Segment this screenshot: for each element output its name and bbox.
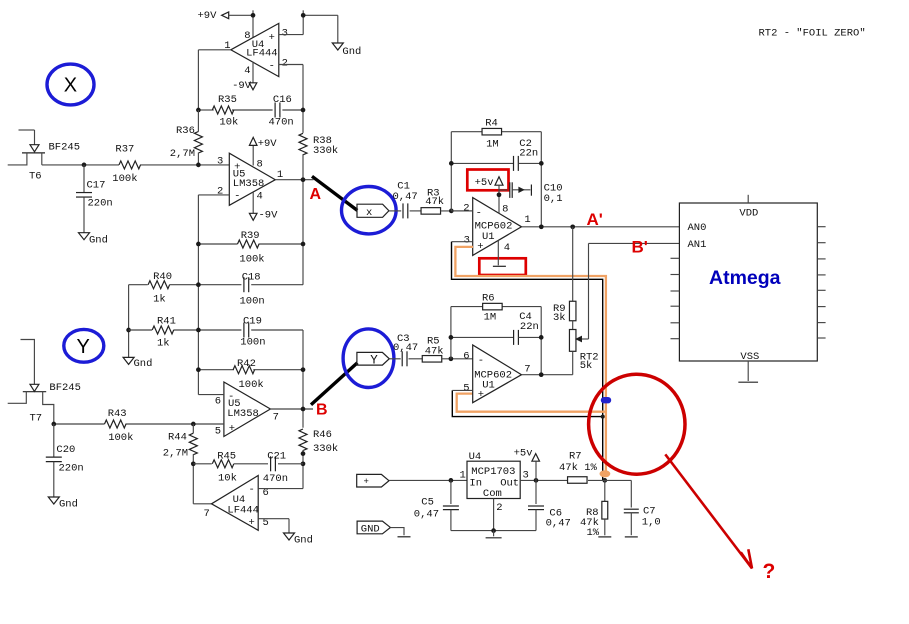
svg-text:R7: R7 (569, 451, 582, 463)
svg-text:Y: Y (77, 336, 90, 358)
wire + tag to regulator (389, 479, 467, 481)
svg-text:-: - (476, 208, 482, 220)
svg-text:7: 7 (273, 412, 279, 424)
node dot R42 left (196, 367, 201, 372)
node dot R39 right (301, 242, 306, 247)
svg-text:MCP1703: MCP1703 (471, 466, 515, 478)
svg-text:4: 4 (244, 65, 250, 77)
svg-text:A: A (310, 186, 322, 203)
op-amp U4 LF444 section B (bottom, output left) (204, 476, 269, 531)
ground bar VSS (738, 381, 758, 383)
pointer thick line A to X tag (312, 176, 357, 210)
svg-text:22n: 22n (519, 148, 538, 160)
svg-text:-9V: -9V (259, 210, 279, 222)
node dot U5B output (301, 407, 306, 412)
svg-text:220n: 220n (59, 463, 84, 475)
pin AN1 (688, 239, 707, 251)
annotation blue dash marker (601, 397, 611, 403)
resistor R45 10k (212, 451, 237, 485)
svg-text:GND: GND (361, 524, 380, 536)
svg-text:R35: R35 (218, 94, 237, 106)
wire pin4 to gnd bar (497, 240, 499, 265)
capacitor C21 470n (263, 451, 288, 486)
resistor R41 1k (152, 315, 176, 349)
op-amp U1 MCP602 section B (Y) (463, 345, 530, 403)
svg-text:100k: 100k (239, 379, 264, 391)
wire U5A output pin1 (275, 179, 313, 181)
svg-text:2,7M: 2,7M (170, 148, 195, 160)
svg-text:C16: C16 (273, 94, 292, 106)
power -9V arrow (U5A pin4) (249, 192, 278, 221)
node dot Com rail (491, 528, 496, 533)
capacitor C5 0,47 (414, 480, 459, 530)
wire U4A pin2 to R38 rail (279, 65, 303, 133)
node dot +5v out (534, 478, 539, 483)
resistor R43 100k (105, 408, 134, 444)
svg-text:C19: C19 (243, 315, 262, 327)
ground Gnd below U4B (284, 533, 313, 546)
annotation red box ground (U1 pin4) (479, 258, 526, 275)
tag GND input (357, 521, 390, 535)
svg-text:RT2 - "FOIL ZERO": RT2 - "FOIL ZERO" (759, 28, 866, 40)
svg-text:0,47: 0,47 (414, 508, 439, 520)
node dot R39 left (196, 242, 201, 247)
annotation red box +5v (467, 170, 508, 191)
node dot C5 junction (449, 478, 454, 483)
power +5v arrow (U1 pin8) (475, 177, 503, 214)
capacitor C1 0,47 (389, 180, 421, 218)
node dot feedback left (196, 108, 201, 113)
atmega left pin ticks (671, 258, 680, 338)
svg-text:U1: U1 (482, 231, 495, 243)
node dot feedback right (301, 108, 306, 113)
wire orange highlight from U1B pin5 (457, 394, 605, 412)
svg-text:R45: R45 (217, 451, 236, 463)
svg-text:VSS: VSS (740, 351, 759, 363)
svg-text:1: 1 (460, 470, 466, 482)
svg-text:Gnd: Gnd (59, 499, 78, 511)
svg-text:2,7M: 2,7M (163, 447, 188, 459)
svg-text:AN1: AN1 (688, 239, 707, 251)
svg-text:Y: Y (370, 354, 378, 368)
resistor R39 100k (198, 230, 303, 266)
label B (red) (316, 401, 328, 418)
svg-text:0,47: 0,47 (546, 517, 571, 529)
power +5v arrow (regulator) (514, 448, 540, 481)
wire Y feedback rail down (302, 330, 304, 428)
capacitor C17 220n (76, 165, 113, 233)
svg-text:+: + (269, 32, 275, 44)
svg-text:+: + (249, 517, 255, 529)
svg-text:47k 1%: 47k 1% (559, 462, 598, 474)
wire black highlight from U1B pin5 (452, 390, 602, 416)
svg-text:-: - (249, 484, 255, 496)
wire U1A pin2 (451, 210, 472, 212)
annotation red circle (589, 374, 685, 474)
wire R46 to C21 rail (302, 450, 304, 489)
ground bar below Com (486, 531, 502, 538)
svg-text:BF245: BF245 (49, 382, 81, 394)
node dot R41 left (126, 328, 131, 333)
svg-text:3: 3 (523, 470, 529, 482)
node dot R3/R4 junction (449, 209, 454, 214)
annotation red arrow (665, 454, 752, 568)
svg-text:10k: 10k (218, 473, 237, 485)
tag X output (357, 204, 389, 219)
resistor R44 2,7M (163, 424, 198, 504)
label Y in circle (77, 336, 90, 358)
svg-text:R42: R42 (237, 358, 256, 370)
power +9V supply arrow (U4 pin 8) (198, 10, 254, 22)
transistor T7 BF245 JFET (8, 340, 81, 425)
orange wire end cap (600, 470, 611, 477)
wire R6 feedback loop (451, 307, 541, 375)
svg-text:0,1: 0,1 (544, 193, 563, 205)
wire left rail R40 to Gnd (128, 285, 130, 358)
svg-text:Atmega: Atmega (709, 267, 781, 289)
svg-text:0,47: 0,47 (393, 191, 418, 203)
ground Gnd below C20 (48, 497, 78, 511)
wire Y input net (54, 423, 224, 425)
wire U4A pin3 to Gnd (279, 10, 338, 43)
svg-text:Gnd: Gnd (342, 46, 361, 58)
svg-text:B: B (316, 401, 328, 418)
svg-text:In: In (469, 478, 482, 490)
svg-text:x: x (366, 207, 372, 219)
svg-text:8: 8 (244, 30, 250, 42)
svg-text:C20: C20 (56, 444, 75, 456)
title note RT2 FOIL ZERO (759, 28, 866, 40)
ground Gnd left rail (123, 357, 152, 370)
resistor R4 1M (482, 118, 502, 151)
node dot pin8/C10 (497, 192, 502, 197)
pin VSS (740, 351, 759, 381)
trimmer RT2 5k (569, 321, 598, 375)
wire B-prime net (to AN1) (589, 242, 680, 244)
svg-text:+: + (229, 423, 235, 435)
annotation blue circle X (top left) (47, 64, 94, 105)
svg-text:Gnd: Gnd (89, 234, 108, 246)
ground bar pin4 (493, 265, 506, 267)
wire U4B pin6 (258, 488, 303, 490)
svg-text:4: 4 (257, 190, 263, 202)
op-amp U5 LM358 section A (X) (217, 153, 283, 205)
capacitor C19 100n (240, 315, 265, 348)
svg-text:47k: 47k (425, 346, 444, 358)
transistor T6 BF245 JFET (8, 130, 80, 182)
svg-text:470n: 470n (269, 116, 294, 128)
svg-text:C18: C18 (242, 272, 261, 284)
wire orange highlight from U1A pin3 (455, 247, 606, 473)
resistor R36 2,7M (170, 110, 203, 165)
resistor R46 330k (299, 429, 338, 455)
node dot +9V pin8 (251, 13, 256, 18)
svg-text:100k: 100k (108, 432, 133, 444)
node dot C2 left (449, 161, 454, 166)
svg-text:LF444: LF444 (246, 48, 278, 60)
svg-text:+: + (364, 477, 369, 487)
resistor R35 10k (212, 94, 238, 129)
svg-text:8: 8 (257, 159, 263, 171)
capacitor C16 470n (269, 94, 294, 129)
svg-text:2: 2 (282, 57, 288, 69)
svg-text:C17: C17 (87, 179, 106, 191)
svg-text:2: 2 (463, 203, 469, 215)
wire GND tag to bar (390, 528, 404, 536)
svg-text:1k: 1k (153, 293, 166, 305)
annotation blue circle Y (left) (64, 329, 104, 362)
atmega right pin ticks (817, 227, 825, 338)
resistor R7 47k 1% (559, 451, 598, 484)
svg-text:LF444: LF444 (227, 505, 259, 517)
node dot C17 junction (82, 163, 87, 168)
capacitor C18 100n (240, 272, 265, 308)
node dot R43/R44 pin5 junction (191, 422, 196, 427)
svg-text:B': B' (632, 238, 648, 257)
wire U4B output pin7 (193, 503, 211, 505)
svg-text:47k: 47k (425, 196, 444, 208)
node dot U1A out (539, 224, 544, 229)
svg-text:C21: C21 (267, 451, 286, 463)
wire RT2 wiper to B-prime (576, 243, 588, 341)
svg-text:1M: 1M (486, 138, 499, 150)
tag + supply input (357, 474, 389, 487)
svg-text:Gnd: Gnd (294, 534, 313, 546)
svg-text:5: 5 (463, 382, 469, 394)
annotation blue circle around Y tag (343, 329, 394, 388)
svg-text:7: 7 (524, 364, 530, 376)
ground Gnd below C17 (79, 233, 108, 247)
capacitor C6 0,47 (528, 480, 571, 530)
resistor R37 100k (112, 144, 140, 186)
wire U5A pin2 feedback rail (198, 195, 229, 395)
ground bar GND tag (398, 536, 411, 538)
svg-text:6: 6 (215, 395, 221, 407)
power +9V arrow (U5A pin8) (249, 137, 277, 165)
node dot C4 right (539, 335, 544, 340)
wire U1B pin5 (452, 389, 472, 391)
resistor R9 3k (553, 227, 576, 324)
svg-text:8: 8 (502, 204, 508, 216)
svg-text:6: 6 (463, 350, 469, 362)
svg-text:1%: 1% (587, 527, 600, 539)
svg-text:3: 3 (464, 235, 470, 247)
svg-text:1M: 1M (484, 312, 497, 324)
node dot R41 mid rail (196, 328, 201, 333)
wire U1B output pin7 (522, 374, 573, 376)
node dot C18 wire (196, 282, 201, 287)
svg-text:7: 7 (204, 508, 210, 520)
label B' (red) (632, 238, 648, 257)
svg-text:BF245: BF245 (49, 142, 81, 154)
svg-text:10k: 10k (219, 116, 238, 128)
svg-text:2: 2 (217, 186, 223, 198)
svg-text:5k: 5k (580, 360, 593, 372)
capacitor C7 1,0 (588, 480, 661, 535)
annotation blue circle around X tag (342, 187, 397, 234)
ground bar below R8 (598, 536, 611, 538)
svg-text:C5: C5 (421, 496, 434, 508)
svg-text:100k: 100k (239, 254, 264, 266)
pointer thick line B to Y tag (311, 363, 357, 405)
svg-text:R39: R39 (241, 230, 260, 242)
svg-text:-: - (269, 61, 275, 73)
svg-text:2: 2 (496, 502, 502, 514)
wire R41/C19 net (129, 329, 303, 331)
resistor R3 47k (421, 187, 473, 214)
pin AN0 (688, 222, 707, 234)
svg-text:T7: T7 (30, 412, 43, 424)
svg-text:+9V: +9V (198, 10, 218, 22)
svg-text:?: ? (763, 560, 776, 583)
svg-text:+5v: +5v (475, 177, 494, 189)
svg-text:330k: 330k (313, 443, 338, 455)
svg-text:Gnd: Gnd (134, 358, 153, 370)
svg-text:R37: R37 (115, 144, 134, 156)
node dot R9 branch (570, 224, 575, 229)
svg-text:100n: 100n (240, 295, 265, 307)
svg-text:AN0: AN0 (688, 222, 707, 234)
resistor R40 1k (148, 271, 172, 306)
wire feedback R35/C16 net (198, 109, 303, 111)
svg-text:1,0: 1,0 (642, 517, 661, 529)
wire R45/C21 net (193, 463, 303, 465)
wire U4B pin5 to Gnd (258, 519, 289, 533)
svg-text:0,47: 0,47 (393, 342, 418, 354)
node dot R44/R45 junction (191, 461, 196, 466)
svg-text:-: - (234, 190, 240, 202)
svg-text:-9V: -9V (232, 80, 252, 92)
svg-text:LM358: LM358 (227, 408, 259, 420)
svg-text:22n: 22n (520, 321, 539, 333)
wire pin8 stub U4A (252, 10, 254, 38)
pin VDD (739, 195, 758, 220)
svg-text:+: + (477, 241, 483, 253)
svg-text:3: 3 (282, 27, 288, 39)
node dot U5A output (301, 177, 306, 182)
svg-text:A': A' (587, 210, 603, 229)
svg-text:+5v: +5v (514, 448, 533, 460)
node dot U1B out (539, 372, 544, 377)
wire U4A output pin1 to feedback rail (198, 50, 230, 110)
node dot C4 left (449, 335, 454, 340)
capacitor C4 22n (451, 311, 541, 345)
ground bar below C7 (625, 536, 638, 538)
svg-text:100k: 100k (112, 173, 137, 185)
wire U5B pin6 (198, 394, 224, 396)
svg-text:R44: R44 (168, 431, 187, 443)
node dot C2 right (539, 161, 544, 166)
op-amp U5 LM358 section B (Y) (215, 382, 279, 438)
node dot R36/R37 pin3 junction (196, 163, 201, 168)
svg-text:R4: R4 (485, 118, 498, 130)
capacitor C10 0,1 decoupling (499, 182, 563, 205)
svg-text:R41: R41 (157, 315, 176, 327)
svg-text:+9V: +9V (258, 138, 278, 150)
svg-text:1k: 1k (157, 337, 170, 349)
power -9V arrow (U4 pin 4) (232, 62, 257, 92)
svg-text:R43: R43 (108, 408, 127, 420)
svg-text:LM358: LM358 (233, 178, 265, 190)
node dot rail above C21 (301, 451, 306, 456)
ground Gnd (top right) (332, 43, 361, 58)
wire black highlight from U1A pin3 (452, 242, 603, 481)
IC Atmega box (679, 203, 817, 361)
wire A-prime net (U1A out to AN0) (522, 226, 680, 228)
label A (red) (310, 186, 322, 203)
svg-text:4: 4 (504, 242, 510, 254)
svg-text:1: 1 (524, 214, 530, 226)
resistor R42 100k (198, 358, 303, 391)
node dot black harness join (601, 415, 605, 419)
resistor R8 47k 1% (580, 480, 608, 538)
svg-text:220n: 220n (88, 197, 113, 209)
svg-text:3: 3 (217, 155, 223, 167)
node dot R42 right (301, 367, 306, 372)
node dot C21 right (301, 461, 306, 466)
svg-text:R40: R40 (153, 271, 172, 283)
wire Com pin to rail (493, 499, 495, 531)
label ? (red) (763, 560, 776, 583)
capacitor C2 22n (451, 138, 541, 171)
resistor R6 1M (482, 292, 502, 323)
wire C5/C6 bottom rail (451, 530, 536, 532)
svg-text:X: X (64, 75, 77, 97)
svg-text:Out: Out (500, 478, 519, 490)
node dot R7/R8 junction (602, 478, 607, 483)
op-amp U4 LF444 section A (top, output left) (224, 23, 288, 77)
node dot C20 junction (51, 422, 56, 427)
node dot pin3 net (301, 13, 306, 18)
svg-text:470n: 470n (263, 473, 288, 485)
op-amp U1 MCP602 section A (X) (463, 198, 530, 256)
svg-text:R6: R6 (482, 292, 495, 304)
wire X input net (42, 164, 230, 166)
wire R40/C18 net (129, 284, 303, 286)
resistor R38 330k (299, 133, 338, 157)
wire R4 feedback loop (451, 132, 541, 227)
svg-text:T6: T6 (29, 170, 42, 182)
svg-text:3k: 3k (553, 312, 566, 324)
label Atmega (blue) (709, 267, 781, 289)
svg-text:Com: Com (483, 488, 502, 500)
wire R38 rail to C18 (302, 154, 304, 284)
wire U5B output pin7 (270, 408, 313, 410)
wire regulator out (520, 479, 567, 481)
wire U1A pin3 (452, 241, 473, 243)
svg-text:R36: R36 (176, 125, 195, 137)
svg-text:U4: U4 (469, 451, 482, 463)
node dot R5/R6 junction (449, 356, 454, 361)
svg-text:VDD: VDD (739, 207, 758, 219)
svg-text:-: - (478, 355, 484, 367)
regulator U4 MCP1703 (460, 451, 529, 514)
capacitor C20 220n (46, 424, 84, 497)
svg-text:100n: 100n (240, 336, 265, 348)
capacitor C3 0,47 (389, 333, 422, 366)
resistor R5 47k (422, 336, 472, 362)
tag Y output (357, 352, 389, 367)
label A' (red) (587, 210, 603, 229)
svg-text:5: 5 (215, 426, 221, 438)
svg-text:+: + (478, 389, 484, 401)
label X in circle (64, 75, 77, 97)
svg-text:R46: R46 (313, 429, 332, 441)
svg-text:330k: 330k (313, 145, 338, 157)
